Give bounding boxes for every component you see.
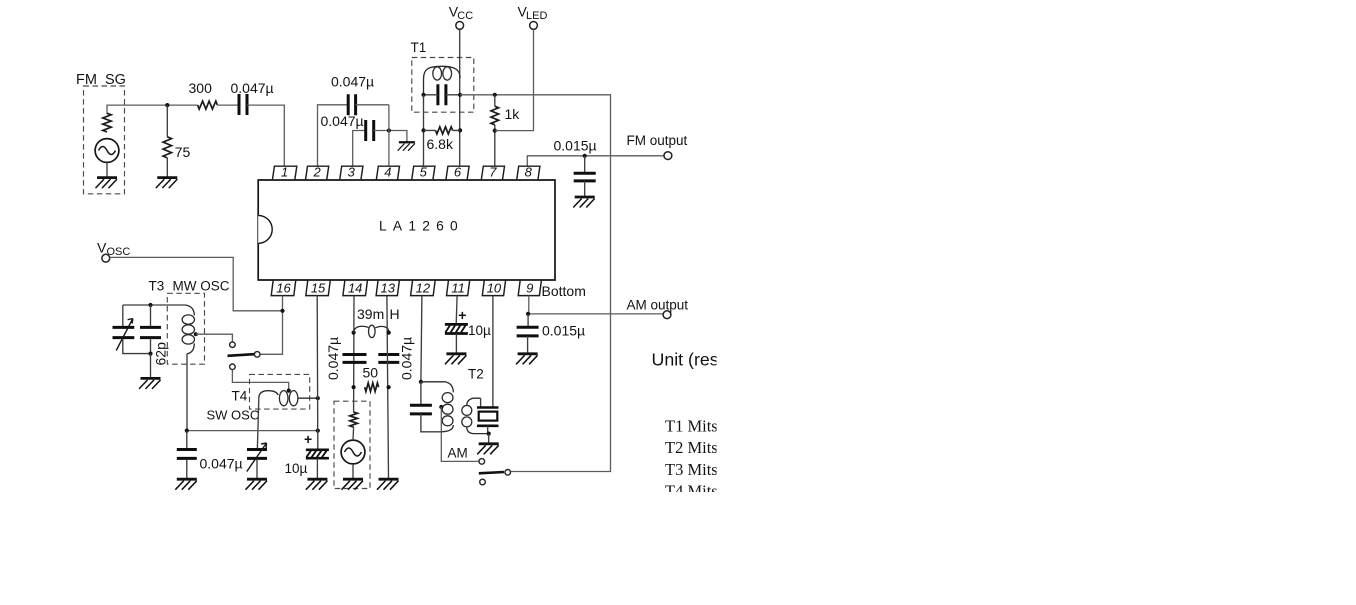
ground T2 filter [477, 444, 499, 455]
svg-text:10µ: 10µ [285, 461, 308, 476]
wire pin 16 down to MW/SW switch [260, 296, 283, 355]
switch AM common [505, 470, 511, 476]
junction 50 right [387, 385, 391, 389]
AM SG dashed box [334, 401, 370, 488]
FM signal generator source [95, 139, 119, 163]
wire 10u pin11 to ground [455, 334, 457, 353]
ceramic filter top plate [477, 406, 499, 409]
pin 6 box [446, 166, 469, 180]
capacitor 10u oscillator electrolytic [306, 450, 329, 458]
node A junction (FM input node) [165, 103, 169, 107]
capacitor 0.047u pin13 [378, 355, 399, 363]
FM SG dashed box [84, 86, 125, 194]
wire pin 2 up and right (pin2-pin4 cap) [318, 105, 349, 166]
ground pin13 [377, 479, 399, 490]
junction 1k bottom / VLED [493, 129, 497, 133]
wire pin 9 to AM output [528, 296, 663, 314]
ground trimmer [246, 479, 268, 490]
IC notch [258, 215, 272, 243]
capacitor 10u pin11 electrolytic [445, 324, 468, 333]
wire 0.015u to ground [584, 181, 586, 196]
wire pin 5 line [423, 95, 425, 166]
junction pin 4 line [387, 128, 391, 132]
wire T3 winding bottom lead down [186, 354, 188, 431]
variable capacitor T3 tank [113, 327, 135, 337]
capacitor T1 tank [438, 84, 446, 105]
capacitor 0.015u FM output [574, 173, 596, 181]
svg-text:T2: T2 [468, 367, 484, 382]
svg-text:5: 5 [420, 165, 428, 180]
svg-text:0.047µ: 0.047µ [325, 337, 341, 380]
terminal VLED [530, 22, 538, 30]
capacitor 0.047u between pin 2 and pin 4 [348, 94, 355, 115]
wire pin 10 line down [492, 296, 494, 407]
junction bottom rail left [185, 429, 189, 433]
junction 6.8k left [421, 128, 425, 132]
svg-text:T4: T4 [232, 389, 248, 404]
svg-text:8: 8 [525, 165, 533, 180]
svg-text:10µ: 10µ [468, 323, 491, 338]
transformer T2 secondary [462, 398, 489, 433]
terminal AM output [663, 311, 671, 319]
svg-text:OSC: OSC [107, 246, 131, 258]
wire AM node to 0.015u [527, 314, 529, 327]
svg-text:10: 10 [487, 280, 502, 295]
svg-text:4: 4 [384, 165, 391, 180]
svg-text:CC: CC [457, 10, 473, 22]
transformer T1 primary winding [424, 66, 461, 95]
svg-text:0.047µ: 0.047µ [231, 80, 274, 96]
svg-text:+: + [304, 431, 312, 447]
capacitor 0.047u at pin 3 [366, 120, 374, 141]
svg-text:Bottom: Bottom [542, 283, 586, 299]
ground 75 resistor [156, 178, 178, 189]
wire FM SG output to node A [107, 105, 198, 114]
ground pin11 10u [445, 354, 467, 365]
wire 0.015u AM to ground [527, 336, 529, 353]
arrow variable capacitor [116, 319, 133, 351]
resistor AM SG internal [350, 412, 358, 427]
T4 dashed box [250, 374, 310, 409]
wire node A down to 75 ohm [166, 105, 168, 137]
svg-text:T3: T3 [149, 279, 165, 294]
pin 12 box [411, 280, 436, 296]
junction T2 primary tap [439, 405, 443, 409]
svg-text:+: + [458, 307, 466, 323]
ground AM 0.015u [516, 354, 538, 365]
svg-text:50: 50 [363, 365, 379, 381]
svg-text:15: 15 [311, 280, 326, 295]
junction filter ground node [487, 432, 491, 436]
svg-text:0.047µ: 0.047µ [399, 337, 415, 380]
ceramic filter body [479, 412, 498, 421]
ground FM 0.015u [573, 197, 595, 208]
svg-text:L A 1 2 6 0: L A 1 2 6 0 [379, 219, 459, 234]
resistor FM SG internal (source impedance) [103, 113, 111, 132]
wire 0.047u leads and ground lead [186, 431, 188, 479]
op IC LA1260 body [258, 180, 555, 280]
junction bottom rail right [316, 429, 320, 433]
svg-text:6: 6 [454, 165, 462, 180]
junction 39mH left [352, 331, 356, 335]
svg-text:0.047µ: 0.047µ [321, 113, 364, 129]
svg-text:AM output: AM output [627, 298, 689, 313]
junction T1 right node [458, 93, 462, 97]
capacitor 0.047u FM input coupling [239, 94, 247, 115]
resistor 75 [163, 137, 171, 158]
svg-text:MW OSC: MW OSC [173, 279, 230, 294]
switch arm AM/FM [479, 472, 504, 473]
wire capacitor to pin 4 line [356, 104, 389, 106]
resistor 6.8k [436, 127, 453, 134]
trimmer capacitor SW [247, 450, 267, 459]
wire capacitor to pin 1 [247, 105, 284, 166]
svg-text:7: 7 [489, 165, 497, 180]
junction 6.8k right [458, 128, 462, 132]
switch MW contact [230, 342, 236, 348]
pin 4 box [376, 166, 399, 180]
wire VCC rail to right and down to AM switch [460, 95, 610, 472]
wire VLED down to 1k bottom [495, 29, 534, 130]
wire 300 to capacitor 0.047u [217, 104, 239, 106]
pin 8 box [517, 166, 540, 180]
transformer T2 primary [421, 382, 453, 432]
ground 0.047u oscillator [175, 479, 197, 490]
switch common to pin16 [254, 352, 260, 358]
terminal VOSC [102, 254, 110, 262]
junction 1k top [493, 93, 497, 97]
wire 1k bottom to pin 7 [494, 125, 496, 166]
wire 62p to ground [150, 354, 152, 378]
junction T2 tank top [419, 380, 423, 384]
wire AM SG leads [352, 427, 355, 478]
svg-text:1: 1 [281, 165, 288, 180]
svg-text:2: 2 [312, 165, 321, 180]
pin 14 box [343, 280, 368, 296]
inductor T3 winding [182, 305, 194, 354]
ground 10u oscillator [306, 479, 328, 490]
wire pin 11 line down [455, 296, 458, 325]
capacitor 0.047u pin14 [343, 355, 367, 363]
junction AM output node [526, 312, 530, 316]
svg-text:11: 11 [451, 280, 465, 295]
wire pin 13 line down to ground [387, 296, 389, 479]
wire pin 15 line down [316, 296, 319, 449]
wire secondary top to pin10 line [480, 398, 482, 407]
wire trimmer to ground [256, 460, 258, 479]
pin 7 box [481, 166, 504, 180]
ground stub near pin 4 [398, 142, 415, 150]
inductor T4 winding [259, 391, 318, 406]
pin 1 box [272, 166, 296, 180]
svg-text:13: 13 [381, 280, 396, 295]
wire bottom rail T3/T4 [187, 430, 318, 432]
junction 62p bottom [148, 352, 152, 356]
capacitor 0.015u AM output [517, 327, 539, 336]
switch FM contact [480, 479, 486, 485]
ground FM SG [96, 178, 118, 189]
pin 11 box [447, 280, 470, 296]
junction 62p top [148, 303, 152, 307]
wire 1k top lead [494, 95, 496, 107]
pin 15 box [306, 280, 331, 296]
svg-text:1k: 1k [505, 106, 521, 122]
wire SW contact to T4 tap [232, 370, 288, 390]
resistor 50 [365, 383, 379, 392]
capacitor 62p [140, 327, 161, 337]
pin 13 box [376, 280, 399, 296]
wire pin3 cap to pin4 line and ground stub [374, 131, 407, 142]
wire T1 cap leads [424, 94, 461, 96]
wire pin 4 vertical [388, 105, 390, 166]
inductor 39mH [354, 325, 389, 337]
wire FM SG source to ground [106, 162, 108, 176]
junction FM output coupling node [583, 154, 587, 158]
wire T4 left lead down to trimmer [257, 398, 258, 448]
AM signal generator source [341, 440, 365, 464]
svg-text:0.015µ: 0.015µ [542, 323, 585, 339]
wire 75 to ground [166, 158, 168, 177]
wire VOSC to pin 16 line [110, 257, 283, 310]
ceramic filter bottom plate [477, 424, 499, 427]
switch SW contact [230, 364, 236, 370]
wire pin 3 up [353, 131, 366, 167]
svg-text:6.8k: 6.8k [427, 136, 454, 152]
junction T4 tap [287, 389, 291, 393]
svg-text:16: 16 [276, 280, 291, 295]
svg-text:3: 3 [348, 165, 356, 180]
pin 10 box [482, 280, 505, 296]
junction 39mH right [387, 331, 391, 335]
wire tank cap top lead [420, 382, 422, 405]
junction 50 left [352, 385, 356, 389]
wire pin 14 line down to AM SG [353, 296, 355, 413]
wire filter bottom to ground junction [487, 426, 489, 434]
wire var cap to bottom rail [123, 339, 151, 354]
svg-text:LED: LED [526, 10, 547, 22]
pin 2 box [306, 166, 329, 180]
junction T4 right on pin15 line [316, 396, 320, 400]
pin 3 box [340, 166, 363, 180]
T1 dashed box [412, 58, 474, 113]
svg-text:14: 14 [348, 280, 362, 295]
svg-text:T1: T1 [411, 40, 427, 55]
svg-text:0.047µ: 0.047µ [200, 456, 243, 472]
svg-text:SW OSC: SW OSC [207, 408, 260, 423]
wire tank cap bottom lead [421, 414, 440, 432]
arrow trimmer capacitor [247, 443, 267, 472]
pin 16 box [271, 280, 296, 296]
page clip right [717, 0, 1356, 605]
svg-text:9: 9 [526, 280, 533, 295]
svg-text:39m: 39m [357, 306, 384, 322]
svg-text:H: H [390, 306, 400, 322]
wire T3 tap to switch MW contact [196, 334, 233, 342]
svg-text:V: V [97, 240, 107, 256]
wire 10u to ground [316, 458, 318, 478]
switch AM contact [479, 459, 485, 465]
wire T3 tank top [123, 304, 186, 306]
junction VOSC on pin16 line [280, 309, 284, 313]
pin 5 box [412, 166, 435, 180]
svg-text:12: 12 [416, 280, 431, 295]
wire 62p leads [150, 305, 152, 354]
junction T3 tap [194, 332, 198, 336]
svg-text:FM SG: FM SG [76, 72, 126, 88]
svg-text:AM: AM [448, 446, 468, 461]
pin 9 box [518, 280, 541, 296]
ground AM SG [342, 479, 364, 490]
junction T1 left node [421, 93, 425, 97]
svg-text:62p: 62p [153, 342, 169, 366]
wire node to 0.015u cap [584, 156, 586, 174]
terminal VCC [456, 22, 464, 30]
resistor 300 [198, 101, 218, 109]
svg-text:0.047µ: 0.047µ [331, 74, 374, 90]
wire pin 8 to FM output [527, 156, 664, 166]
wire var cap left branch [122, 305, 124, 326]
wire pin 12 line down to T2 tank [421, 296, 422, 382]
wire VCC down through T1 to pin 6 [459, 29, 461, 166]
T3 dashed box [167, 293, 204, 364]
wire T2 tap down to AM contact [441, 407, 479, 461]
svg-text:0.015µ: 0.015µ [554, 138, 597, 154]
svg-text:FM output: FM output [627, 133, 688, 148]
ground T3 tank [139, 378, 161, 389]
capacitor T2 tank [410, 405, 432, 414]
svg-text:300: 300 [189, 80, 213, 96]
svg-text:75: 75 [175, 144, 191, 160]
resistor 1k [491, 106, 499, 125]
wire 6.8k leads [424, 129, 461, 131]
capacitor 0.047u oscillator [177, 450, 197, 459]
terminal FM output [664, 152, 672, 160]
switch arm MW/SW [228, 354, 255, 356]
wire to T2 ground [488, 434, 490, 443]
page clip bottom [640, 492, 760, 605]
